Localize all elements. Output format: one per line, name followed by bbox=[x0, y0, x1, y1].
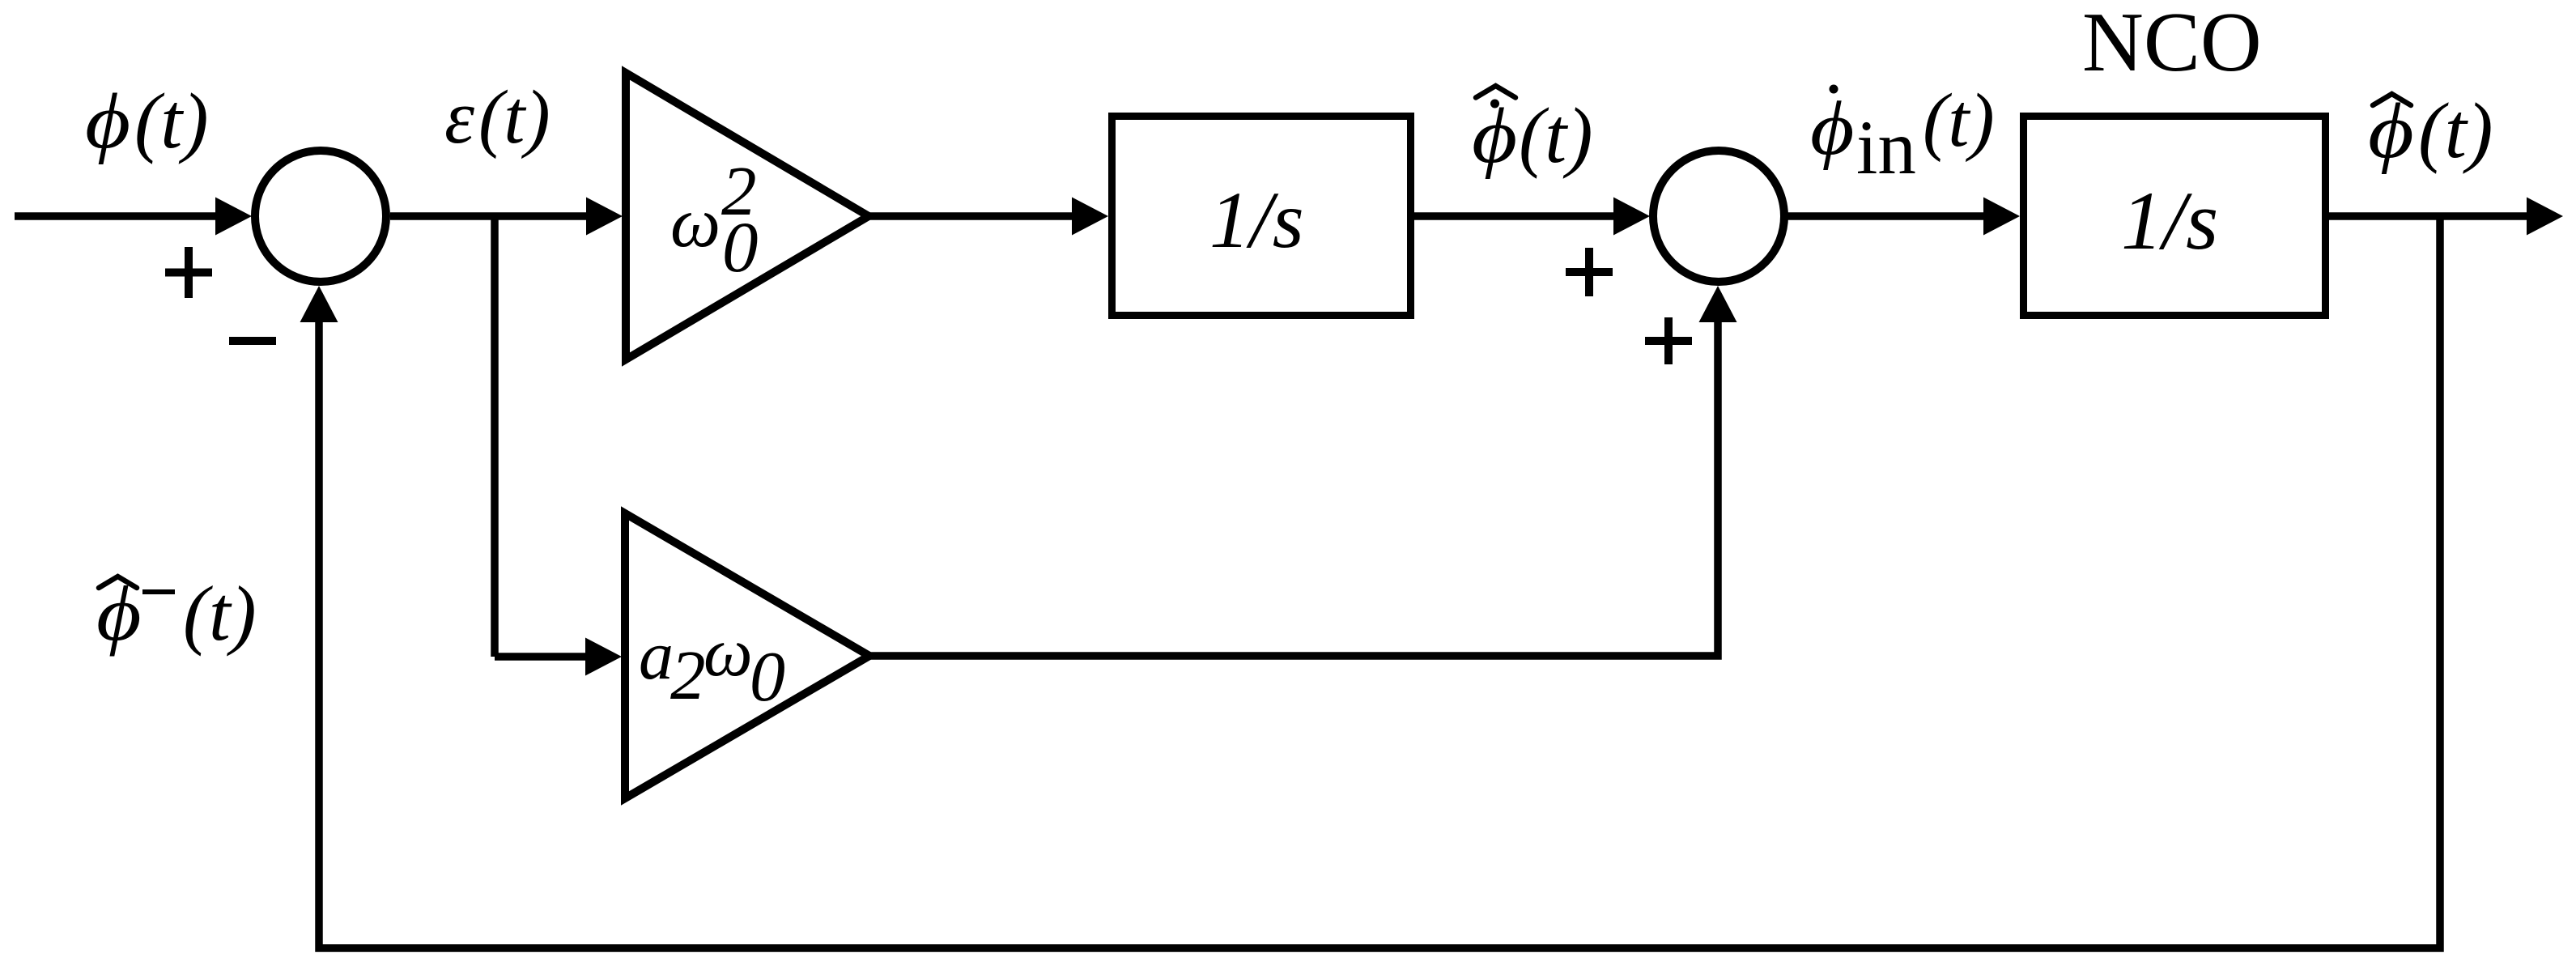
svg-text:(t): (t) bbox=[478, 75, 550, 160]
svg-text:ϕ: ϕ bbox=[1472, 92, 1517, 179]
gain G2 triangle a_2 omega_0 bbox=[625, 513, 869, 798]
summing junction S1 bbox=[255, 151, 386, 282]
wire G1 to integrator box B1 bbox=[869, 198, 1108, 236]
svg-text:ϕ: ϕ bbox=[1810, 86, 1854, 171]
value label omega_0^2 bbox=[670, 151, 759, 287]
svg-text:ω: ω bbox=[670, 184, 721, 262]
wire input phi(t) bbox=[15, 198, 252, 236]
svg-text:(t): (t) bbox=[2418, 87, 2493, 175]
summing junction S2 bbox=[1653, 151, 1784, 282]
node phi-hat(t) output label bbox=[2368, 86, 2493, 175]
wire S2 to NCO box B2 bbox=[1785, 198, 2020, 236]
svg-text:ε: ε bbox=[444, 75, 474, 160]
wire branch to gain G2 bbox=[495, 638, 622, 676]
svg-text:1/s: 1/s bbox=[1209, 175, 1304, 265]
wire S1 to gain G1 (epsilon) bbox=[390, 198, 623, 236]
svg-text:0: 0 bbox=[750, 638, 785, 717]
wire G2 to S2: right then up into S2 bottom bbox=[869, 286, 1737, 656]
svg-text:1/s: 1/s bbox=[2121, 175, 2218, 267]
junction on epsilon wire, branch down bbox=[491, 214, 499, 657]
svg-text:ω: ω bbox=[704, 613, 753, 691]
wire B1 to summing junction S2 bbox=[1414, 198, 1650, 236]
svg-text:a: a bbox=[639, 616, 674, 694]
svg-text:ϕ: ϕ bbox=[96, 571, 142, 657]
node epsilon(t) label bbox=[444, 75, 550, 160]
svg-text:(t): (t) bbox=[183, 570, 257, 657]
svg-text:0: 0 bbox=[722, 208, 759, 287]
svg-text:in: in bbox=[1856, 104, 1916, 190]
gain G1 triangle omega_0^2 bbox=[626, 73, 869, 359]
node phi-hat-dot(t) label bbox=[1472, 86, 1593, 180]
svg-text:2: 2 bbox=[670, 636, 706, 714]
svg-text:(t): (t) bbox=[1923, 79, 1995, 163]
integrator box B1 (1/s) bbox=[1112, 117, 1411, 316]
svg-text:ϕ: ϕ bbox=[2368, 86, 2414, 174]
value label a_2 omega_0 bbox=[639, 613, 785, 717]
output wire phi-hat(t) bbox=[2329, 198, 2563, 236]
plus sign below at summing junction S2 bbox=[1645, 317, 1692, 364]
plus sign at summing junction S1 bbox=[165, 247, 212, 298]
minus sign at summing junction S1 bbox=[229, 337, 276, 345]
node phi(t) input label bbox=[85, 78, 209, 165]
node phi-hat-minus(t) feedback label bbox=[96, 570, 257, 657]
feedback wire: output branch down, bottom bus, up into S1 bbox=[300, 216, 2441, 948]
NCO box B2 (1/s) bbox=[2024, 117, 2326, 316]
svg-text:ϕ: ϕ bbox=[85, 78, 130, 164]
node phi-dot-in(t) label bbox=[1810, 79, 1995, 190]
svg-text:(t): (t) bbox=[134, 78, 209, 164]
svg-text:(t): (t) bbox=[1519, 92, 1593, 179]
plus sign left at summing junction S2 bbox=[1566, 248, 1613, 296]
svg-text:NCO: NCO bbox=[2082, 0, 2262, 89]
